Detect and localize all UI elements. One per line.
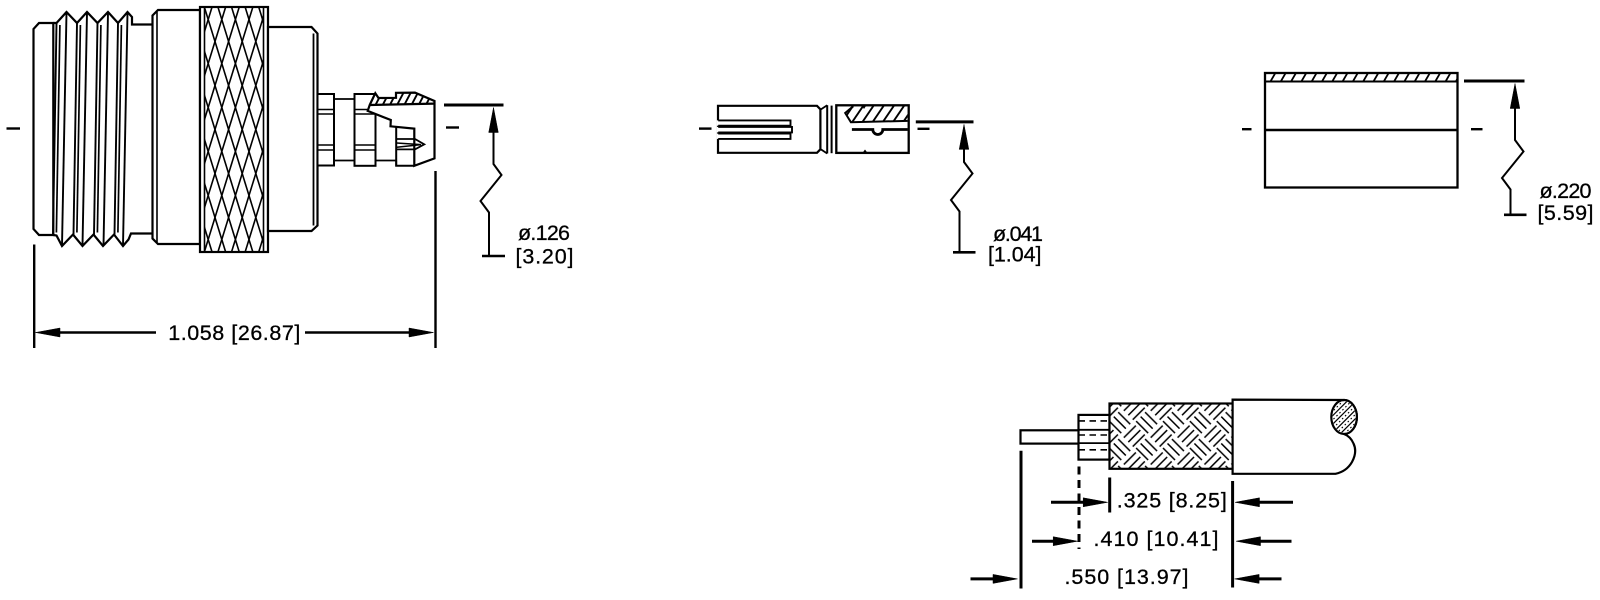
- svg-text:ø.126: ø.126: [518, 221, 570, 245]
- extension line at dielectric start (hidden/dashed): [1078, 467, 1081, 550]
- dimension o.220 arrow and break: [1510, 84, 1520, 109]
- crimp sleeve outer shell: [368, 93, 435, 166]
- cable core end (hatched ellipse): [1331, 400, 1357, 434]
- svg-text:1.058 [26.87]: 1.058 [26.87]: [168, 321, 300, 345]
- crimp sleeve knurl band (hatched): [370, 104, 435, 105]
- svg-text:.550 [13.97]: .550 [13.97]: [1065, 565, 1189, 589]
- dimension line 1.058 with arrows: [36, 328, 61, 337]
- svg-text:.410 [10.41]: .410 [10.41]: [1094, 527, 1219, 551]
- crimp shaft neck 2 bottom edge: [376, 160, 397, 162]
- dimension .410 arrows: [1032, 540, 1057, 543]
- contact collar ring: [826, 105, 828, 153]
- coupling nut thread crest zigzag (top): [53, 12, 152, 25]
- barrel slots: [717, 120, 791, 125]
- ferrule mid seam line: [1265, 129, 1458, 132]
- dimension leader o.220 top line: [1464, 80, 1525, 83]
- connector back ring (rear face of coupling nut): [34, 23, 54, 235]
- svg-text:[1.04]: [1.04]: [988, 243, 1042, 267]
- smooth band of connector body: [153, 10, 201, 244]
- centerline (left) of connector body: [7, 127, 21, 129]
- extension line at jacket start: [1231, 481, 1234, 588]
- centerline (right) of connector body: [446, 126, 459, 128]
- ferrule knurl band (hatched): [1265, 81, 1458, 83]
- front collar of connector body: [268, 27, 318, 231]
- svg-text:ø.220: ø.220: [1540, 179, 1592, 203]
- crimp shaft rib 1: [318, 94, 335, 166]
- knurled grip section: [200, 7, 268, 252]
- contact neck flare: [821, 105, 828, 109]
- dielectric section: [1079, 415, 1110, 460]
- dimension o.126 arrow and break: [489, 108, 499, 133]
- svg-text:[3.20]: [3.20]: [516, 244, 574, 268]
- dimension leader o.041 top line: [916, 120, 974, 123]
- crimp shaft rib 2: [355, 94, 376, 166]
- inner crimp insert: [396, 127, 414, 166]
- coupling nut thread crest zigzag (bottom): [53, 234, 152, 247]
- cable jacket: [1233, 400, 1357, 474]
- extension line at conductor tip: [1020, 451, 1023, 589]
- bucket seam line with dimple: [852, 130, 908, 135]
- dimension .550 arrows: [971, 577, 997, 580]
- centerline (left) of ferrule: [1242, 128, 1252, 130]
- center conductor: [1021, 430, 1080, 443]
- small index marks: [862, 105, 867, 109]
- extension line left for 1.058: [33, 245, 35, 349]
- extension line at braid start: [1108, 478, 1111, 513]
- centerline (left) of contact: [699, 127, 712, 129]
- braid section (woven): [1110, 404, 1234, 469]
- contact crimp bucket: [836, 105, 908, 153]
- bucket hatched wedge: [845, 106, 907, 122]
- centerline (right) of contact: [918, 128, 930, 130]
- dimension .325 arrows: [1051, 501, 1088, 504]
- thread flank lines: [53, 13, 128, 246]
- extension line from crimp sleeve bottom: [434, 171, 436, 348]
- dimension leader o.126 top line: [444, 104, 504, 107]
- crimp shaft neck 1: [334, 98, 355, 100]
- centerline (right) of ferrule: [1471, 128, 1483, 130]
- dimension o.041 arrow and break: [959, 124, 969, 149]
- ferrule body: [1265, 73, 1458, 188]
- svg-text:.325 [8.25]: .325 [8.25]: [1117, 489, 1227, 513]
- svg-text:[5.59]: [5.59]: [1538, 201, 1594, 225]
- center pin chevron: [397, 143, 421, 147]
- contact barrel: [718, 106, 820, 153]
